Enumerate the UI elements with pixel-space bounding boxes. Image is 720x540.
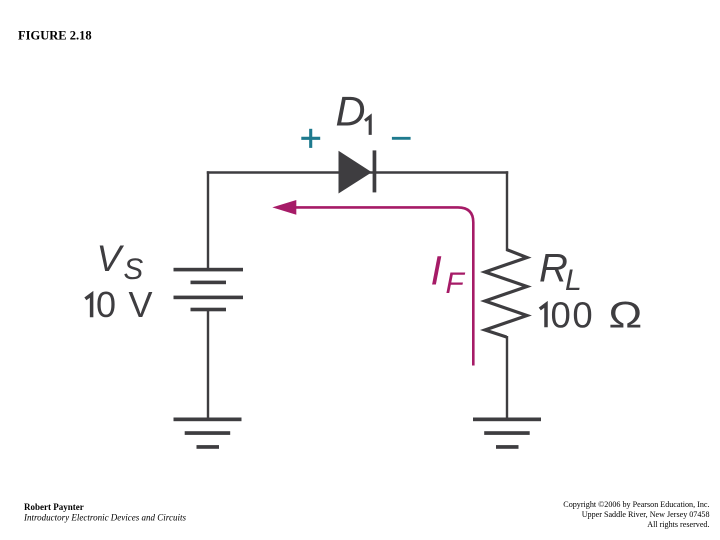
footer copyright line 3 bbox=[647, 520, 709, 529]
svg-text:D: D bbox=[336, 87, 366, 134]
footer copyright line 1 bbox=[563, 500, 709, 509]
wire right upper bbox=[506, 171, 508, 251]
label minus bbox=[392, 137, 411, 140]
current arrow IF bbox=[272, 200, 473, 366]
label D1 bbox=[336, 87, 371, 135]
battery VS bbox=[174, 268, 244, 312]
label 10 V bbox=[85, 284, 152, 325]
svg-text:Upper Saddle River, New Jersey: Upper Saddle River, New Jersey 07458 bbox=[582, 510, 710, 519]
footer author bbox=[24, 502, 84, 512]
svg-text:I: I bbox=[431, 248, 442, 294]
label IF bbox=[431, 248, 466, 300]
footer book title bbox=[23, 513, 186, 523]
svg-text:Copyright ©2006 by Pearson Edu: Copyright ©2006 by Pearson Education, In… bbox=[563, 500, 709, 509]
wire left lower bbox=[207, 310, 209, 420]
svg-text:00: 00 bbox=[551, 294, 595, 335]
label 100 ohm bbox=[540, 294, 642, 335]
svg-text:R: R bbox=[539, 247, 568, 291]
svg-text:V: V bbox=[129, 284, 153, 325]
svg-text:L: L bbox=[565, 264, 582, 297]
svg-text:Ω: Ω bbox=[609, 294, 643, 335]
ground right bbox=[473, 418, 541, 449]
label plus bbox=[301, 129, 320, 148]
svg-text:All rights reserved.: All rights reserved. bbox=[647, 520, 709, 529]
figure caption FIGURE 2.18 bbox=[18, 29, 92, 43]
label VS bbox=[97, 238, 144, 286]
svg-text:Robert Paynter: Robert Paynter bbox=[24, 502, 84, 512]
svg-text:FIGURE 2.18: FIGURE 2.18 bbox=[18, 29, 92, 43]
resistor RL bbox=[485, 250, 527, 338]
footer copyright line 2 bbox=[582, 510, 710, 519]
svg-text:F: F bbox=[446, 267, 466, 300]
wire left upper bbox=[207, 171, 209, 269]
svg-text:S: S bbox=[124, 253, 144, 286]
label RL bbox=[539, 247, 582, 297]
diode D1 bbox=[339, 150, 377, 193]
wire right lower bbox=[506, 336, 508, 419]
wire top bbox=[207, 171, 508, 173]
ground left bbox=[174, 418, 242, 449]
svg-text:V: V bbox=[97, 238, 125, 279]
svg-text:Introductory Electronic Device: Introductory Electronic Devices and Circ… bbox=[23, 513, 186, 523]
svg-text:0: 0 bbox=[96, 284, 116, 325]
